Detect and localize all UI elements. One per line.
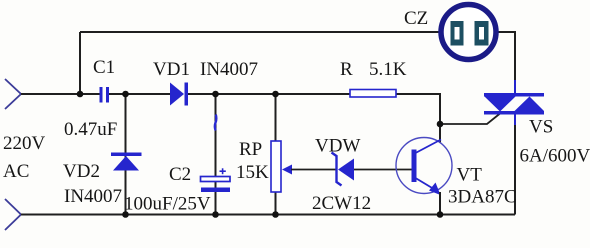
terminal: AC input bottom chevron: [5, 199, 21, 230]
svg-text:15K: 15K: [236, 162, 269, 183]
wire: wiper net to VT base: [354, 169, 412, 171]
svg-text:220V: 220V: [3, 133, 46, 154]
capacitor C2: [201, 168, 231, 192]
svg-text:C2: C2: [169, 164, 191, 185]
node: collector/gate junction: [437, 121, 444, 128]
node: VD2 bottom junction: [122, 211, 129, 218]
transistor VT base bar: [412, 150, 417, 183]
svg-text:VS: VS: [529, 117, 553, 138]
wire: VT emitter to bottom rail: [439, 192, 441, 215]
wire: blue mark on C2 branch: [215, 115, 216, 131]
wire: RP branch down: [275, 94, 277, 215]
svg-text:VT: VT: [457, 165, 483, 186]
transistor VT collector stroke: [416, 140, 442, 154]
svg-text:RP: RP: [239, 139, 262, 160]
svg-text:2CW12: 2CW12: [312, 193, 371, 214]
node: emitter bottom junction: [437, 211, 444, 218]
wire: C1 to VD1: [109, 93, 170, 95]
triac VS: [484, 93, 544, 115]
wire: bottom rail: [21, 214, 515, 216]
svg-text:100uF/25V: 100uF/25V: [124, 194, 211, 215]
svg-text:IN4007: IN4007: [64, 186, 122, 207]
wire: riser from main rail to top rail: [79, 32, 81, 94]
wire: VD2 branch down: [125, 94, 127, 215]
diode VD2: [111, 153, 142, 171]
wire: triac to bottom rail: [514, 125, 516, 215]
capacitor C1: [100, 87, 110, 103]
wire: triac lead stubs (blue): [514, 80, 516, 127]
wire: main rail VD1 to corner above VT: [188, 94, 440, 143]
wire: socket to triac vertical: [496, 32, 515, 86]
potentiometer RP body: [271, 141, 281, 192]
wire: top rail to socket: [80, 31, 441, 33]
svg-text:VD1: VD1: [153, 59, 190, 80]
svg-text:VDW: VDW: [315, 136, 360, 157]
diode VD1: [170, 83, 188, 106]
socket CZ: [441, 5, 496, 60]
svg-text:AC: AC: [3, 161, 29, 182]
svg-text:3DA87C: 3DA87C: [448, 187, 517, 208]
svg-text:6A/600V: 6A/600V: [520, 146, 590, 167]
transistor VT circle: [396, 138, 452, 194]
node: RP top junction: [272, 91, 279, 98]
node: RP bottom junction: [272, 211, 279, 218]
wire: gate wire from collector node to triac: [440, 114, 500, 125]
svg-text:R: R: [340, 59, 353, 80]
node: C2 top junction: [212, 91, 219, 98]
wire: top lead from terminal to C1: [21, 93, 100, 95]
potentiometer RP wiper arrow: [282, 165, 336, 175]
node: top rail riser junction: [77, 91, 84, 98]
svg-text:C1: C1: [93, 57, 115, 78]
svg-text:IN4007: IN4007: [200, 59, 258, 80]
node: VD2 top junction: [122, 91, 129, 98]
svg-text:0.47uF: 0.47uF: [64, 119, 117, 140]
svg-text:VD2: VD2: [63, 161, 100, 182]
transistor VT emitter stroke with arrow: [416, 178, 441, 195]
wire: C2 branch down: [215, 94, 217, 215]
terminal: AC input top chevron: [5, 79, 21, 109]
node: C2 bottom junction: [212, 211, 219, 218]
resistor R body: [350, 90, 396, 98]
svg-text:5.1K: 5.1K: [369, 59, 407, 80]
zener diode VDW: [332, 153, 355, 186]
svg-text:CZ: CZ: [404, 8, 428, 29]
